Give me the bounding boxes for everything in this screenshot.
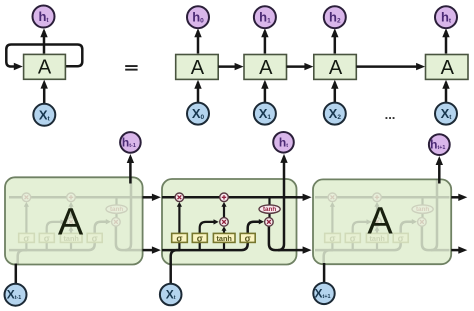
gate: forget sigma bbox=[325, 233, 341, 242]
svg-text:tanh: tanh bbox=[263, 206, 276, 213]
wire: recurrent loop around box A bbox=[6, 45, 82, 67]
svg-text:A: A bbox=[259, 57, 273, 79]
op: input multiply bbox=[67, 218, 76, 227]
wire: candidate tanh stub up to multiply bbox=[70, 229, 72, 250]
wire: x_t input joins hidden line bbox=[324, 250, 333, 284]
wire: output multiply down, bends right, exits as h bbox=[269, 226, 297, 250]
op: input multiply bbox=[220, 218, 229, 227]
svg-text:A: A bbox=[367, 201, 393, 243]
RNN cell A (unrolled #3) bbox=[426, 55, 469, 80]
gate: output sigma bbox=[393, 233, 408, 242]
op: forget multiply bbox=[328, 193, 337, 202]
RNN cell A (unrolled #0) bbox=[176, 55, 219, 80]
wire: x_2 to A2 arrow bbox=[334, 82, 337, 102]
wire: h_t branch upward out of cell bbox=[125, 157, 131, 250]
op: tanh squash oval bbox=[259, 205, 280, 213]
svg-text:tanh: tanh bbox=[416, 206, 429, 213]
wire: x_t+1 input stub into right cell bbox=[323, 263, 326, 283]
node h_t bbox=[435, 6, 457, 28]
wire: A2 to h_2 arrow bbox=[334, 31, 337, 54]
op: add to cell state bbox=[373, 193, 382, 202]
node x_t (middle input) bbox=[160, 284, 182, 306]
LSTM cell box (left, t-1) bbox=[5, 177, 143, 264]
ghost internals of right cell bbox=[315, 154, 450, 284]
wire: candidate tanh stub up to multiply bbox=[223, 229, 225, 250]
wire: h_t+1 output stub from right cell bbox=[438, 159, 441, 184]
RNN cell A (unrolled #2) bbox=[314, 55, 357, 80]
gate: candidate tanh bbox=[366, 233, 388, 242]
op: add to cell state bbox=[220, 193, 229, 202]
node h_t-1 bbox=[120, 132, 141, 153]
wire: x_t-1 input stub into left cell bbox=[15, 264, 18, 284]
wire: A to h_t output arrow bbox=[43, 31, 46, 54]
op: input multiply bbox=[373, 218, 382, 227]
node x_0 bbox=[187, 103, 209, 125]
wire: cell-state line (inside cell) bbox=[315, 196, 450, 199]
wire: x_1 to A1 arrow bbox=[264, 82, 267, 102]
wire: candidate tanh stub up to multiply bbox=[376, 229, 378, 250]
wire: x_t input arrow to A bbox=[43, 83, 46, 104]
wire: multiply up into add bbox=[223, 205, 225, 218]
wire: x_t input joins hidden line bbox=[171, 250, 180, 284]
wire: A0 to A1 bbox=[218, 65, 240, 68]
gate: forget sigma bbox=[19, 233, 35, 242]
wire: x_t input joins hidden line bbox=[18, 250, 27, 284]
svg-text:tanh: tanh bbox=[216, 234, 231, 243]
node h_t+1 bbox=[429, 134, 450, 155]
wire: hidden state from left cell into middle bbox=[143, 249, 157, 252]
wire: A1 to h_1 arrow bbox=[264, 31, 267, 54]
node x_t+1 bbox=[313, 283, 334, 304]
gate: forget sigma bbox=[172, 233, 188, 242]
svg-text:σ: σ bbox=[245, 233, 251, 243]
op: tanh squash oval bbox=[412, 205, 433, 213]
svg-text:A: A bbox=[329, 57, 343, 79]
wire: hidden state out of right cell bbox=[451, 249, 463, 252]
node x_t input (rolled) bbox=[33, 104, 55, 126]
op: output multiply bbox=[418, 218, 427, 227]
LSTM cell box (right, t+1) bbox=[313, 179, 451, 264]
wire: A0 to h_0 arrow bbox=[197, 31, 200, 54]
gate: input sigma bbox=[39, 233, 54, 242]
wire: h_t branch upward out of cell bbox=[278, 157, 284, 250]
wire: cell state branch down through tanh bbox=[115, 197, 117, 221]
wire: A3 to h_t arrow bbox=[445, 31, 448, 54]
svg-text:σ: σ bbox=[398, 233, 404, 243]
svg-text:A: A bbox=[38, 57, 52, 79]
op: output multiply bbox=[265, 218, 274, 227]
LSTM cell box (middle, t) bbox=[162, 179, 297, 265]
gate: output sigma bbox=[87, 233, 102, 242]
node h_0 bbox=[187, 6, 209, 28]
RNN cell A (unrolled #1) bbox=[244, 55, 287, 80]
wire: x_t to A3 arrow bbox=[445, 82, 448, 102]
wire: h_t branch upward out of cell bbox=[431, 157, 437, 250]
ghost internals of left cell bbox=[9, 154, 144, 284]
gate: candidate tanh bbox=[60, 233, 82, 242]
node h_2 bbox=[324, 6, 346, 28]
wire: A1 to A2 bbox=[287, 65, 310, 68]
wire: cell state from left cell into middle bbox=[143, 196, 157, 199]
svg-text:A: A bbox=[191, 57, 205, 79]
wire: h_t-1 output stub from left cell bbox=[129, 157, 132, 184]
op: output multiply bbox=[112, 218, 121, 227]
op: forget multiply bbox=[22, 193, 31, 202]
wire: x_0 to A0 arrow bbox=[197, 82, 200, 102]
svg-text:σ: σ bbox=[197, 233, 203, 243]
svg-text:σ: σ bbox=[350, 233, 356, 243]
wire: input gate stub, bends right into multiply bbox=[47, 222, 62, 250]
svg-text:...: ... bbox=[385, 107, 396, 122]
wire: hidden-state line entering, bends up into output gate bbox=[9, 222, 107, 250]
gate: output sigma bbox=[240, 233, 255, 242]
svg-text:σ: σ bbox=[44, 233, 50, 243]
wire: cell state branch down through tanh bbox=[421, 197, 423, 221]
svg-text:tanh: tanh bbox=[110, 206, 123, 213]
wire: output multiply down, bends right, exits as h bbox=[116, 226, 144, 250]
svg-text:A: A bbox=[58, 202, 84, 244]
node h_t (middle output) bbox=[273, 132, 294, 153]
svg-text:σ: σ bbox=[92, 233, 98, 243]
wire: hidden-state line entering, bends up into output gate bbox=[315, 222, 413, 250]
node x_t-1 bbox=[5, 284, 27, 306]
wire: multiply up into add bbox=[376, 205, 378, 218]
wire: multiply up into add bbox=[70, 205, 72, 218]
node x_1 bbox=[254, 103, 276, 125]
wire: output multiply down, bends right, exits as h bbox=[422, 226, 450, 250]
wire: cell-state line (inside cell) bbox=[9, 196, 144, 199]
wire: hidden-state line entering, bends up into output gate bbox=[162, 222, 260, 250]
wire: cell state from middle into right cell bbox=[297, 196, 308, 199]
equals sign bbox=[125, 65, 137, 67]
wire: forget gate stub up to multiply bbox=[331, 205, 333, 251]
wire: cell-state line (inside cell) bbox=[162, 196, 297, 199]
svg-text:A: A bbox=[441, 57, 455, 79]
svg-text:σ: σ bbox=[329, 233, 335, 243]
op: forget multiply bbox=[175, 193, 184, 202]
gate: input sigma bbox=[192, 233, 207, 242]
RNN cell A (rolled) bbox=[24, 54, 66, 79]
node h_1 bbox=[254, 6, 276, 28]
svg-text:σ: σ bbox=[176, 233, 182, 243]
gate: candidate tanh bbox=[213, 233, 235, 242]
op: add to cell state bbox=[67, 193, 76, 202]
wire: cell state branch down through tanh bbox=[268, 197, 270, 221]
wire: hidden state from middle into right cell bbox=[297, 249, 308, 252]
wire: input gate stub, bends right into multiply bbox=[353, 222, 368, 250]
wire: forget gate stub up to multiply bbox=[25, 205, 27, 251]
node x_2 bbox=[324, 103, 346, 125]
svg-text:σ: σ bbox=[23, 233, 29, 243]
wire: A2 to A_t (long) bbox=[356, 65, 421, 68]
wire: forget gate stub up to multiply bbox=[178, 205, 180, 251]
gate: input sigma bbox=[345, 233, 360, 242]
node x_t bbox=[435, 103, 457, 125]
node h_t output (rolled) bbox=[33, 6, 55, 28]
wire: input gate stub, bends right into multiply bbox=[200, 222, 215, 250]
wire: cell state out of right cell bbox=[451, 196, 463, 199]
op: tanh squash oval bbox=[106, 205, 127, 213]
